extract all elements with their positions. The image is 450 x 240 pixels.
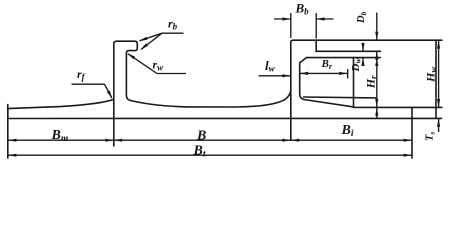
D_b dim lower bbox=[376, 51, 378, 59]
H_r lower extra bbox=[376, 107, 378, 118]
recess right face bbox=[353, 58, 355, 108]
r_b leader 1 bbox=[140, 33, 163, 41]
svg-text:Br: Br bbox=[321, 58, 333, 71]
T_s dim lower bbox=[438, 118, 440, 132]
svg-text:Bi: Bi bbox=[341, 123, 354, 139]
B_r dim line bbox=[300, 72, 348, 74]
svg-text:Ts: Ts bbox=[425, 132, 437, 141]
right end face bbox=[435, 40, 437, 118]
r_f arrow bbox=[107, 91, 112, 99]
right wall right face + fillet + slope B bbox=[300, 63, 354, 107]
recess underside and H_r extension bbox=[307, 57, 381, 59]
trough floor dish bbox=[131, 89, 291, 107]
H_w bottom arrow bbox=[437, 99, 440, 107]
D_w dim upper bbox=[362, 44, 364, 52]
svg-text:Db: Db bbox=[356, 11, 368, 24]
r_b arrow 1 bbox=[139, 37, 148, 41]
svg-text:Bb: Bb bbox=[295, 1, 310, 17]
svg-text:Bm: Bm bbox=[51, 128, 69, 144]
r_b underline bbox=[162, 32, 184, 34]
left edge extension bbox=[7, 105, 9, 159]
B left arrow bbox=[114, 139, 122, 142]
t_w arrow bbox=[282, 74, 290, 77]
T_s bottom arrow bbox=[437, 118, 440, 126]
r_f leader bbox=[105, 84, 112, 98]
B_t left arrow bbox=[8, 154, 16, 157]
left end face of slab bbox=[7, 109, 9, 119]
left wall head bbox=[117, 41, 138, 53]
svg-text:Hr: Hr bbox=[363, 75, 378, 89]
slab top left sloped surface bbox=[8, 99, 114, 108]
walkway block joint bbox=[354, 106, 442, 108]
r_w leader bbox=[128, 54, 157, 74]
r_b arrow 2 bbox=[140, 43, 148, 49]
right wall left face line bbox=[291, 40, 294, 140]
left wall left face line bbox=[114, 41, 117, 146]
B_m left arrow bbox=[8, 139, 16, 142]
kerb joint line bbox=[315, 40, 317, 51]
B_b ext right bbox=[315, 13, 317, 39]
t_w dim line bbox=[259, 75, 291, 77]
D_w dim lower bbox=[362, 58, 364, 65]
B_i left arrow bbox=[291, 139, 299, 142]
svg-text:rw: rw bbox=[153, 58, 165, 73]
B_r ext stub bbox=[347, 69, 349, 79]
B_b ext left bbox=[290, 13, 292, 38]
H_r bottom arrow bbox=[375, 99, 378, 107]
slab bottom bbox=[8, 117, 442, 119]
B_t right arrow bbox=[404, 154, 412, 157]
B_b dim left bbox=[274, 18, 291, 20]
B_r left arrow bbox=[300, 72, 308, 75]
ledge underside line bbox=[316, 50, 380, 52]
B_b dim right bbox=[316, 18, 333, 20]
B right arrow bbox=[282, 139, 290, 142]
H_r top arrow bbox=[375, 58, 378, 66]
recess chamfer bbox=[300, 58, 307, 63]
left wall right face + fillet bbox=[126, 53, 131, 101]
H_w top arrow bbox=[437, 40, 440, 48]
B_b right arrow bbox=[316, 17, 324, 20]
D_b top arrow bbox=[375, 32, 378, 40]
B_b left arrow bbox=[282, 17, 290, 20]
svg-text:Dw: Dw bbox=[350, 58, 363, 73]
r_w underline bbox=[157, 73, 186, 75]
svg-text:rf: rf bbox=[77, 67, 86, 82]
H_r dim line bbox=[376, 58, 378, 108]
row2 dim line bbox=[8, 154, 412, 156]
duct floor line A bbox=[304, 96, 377, 99]
D_b dim upper bbox=[376, 13, 378, 41]
divider extension x412 bbox=[411, 107, 413, 158]
svg-text:rb: rb bbox=[168, 17, 178, 32]
svg-text:lw: lw bbox=[265, 58, 276, 74]
r_b leader 2 bbox=[141, 33, 162, 49]
svg-text:B: B bbox=[196, 129, 206, 144]
H_r extra up arrow bbox=[375, 107, 378, 115]
H_w dim line bbox=[438, 40, 440, 107]
r_w arrow bbox=[127, 53, 135, 59]
D_w bottom arrow bbox=[361, 58, 364, 66]
r_f underline bbox=[72, 83, 105, 85]
B_i right arrow bbox=[404, 139, 412, 142]
svg-text:Bt: Bt bbox=[193, 143, 206, 159]
B_r right arrow bbox=[339, 72, 347, 75]
row1 dim line bbox=[8, 139, 412, 141]
svg-text:Hw: Hw bbox=[423, 66, 438, 83]
D_b bottom arrow bbox=[375, 51, 378, 59]
B_m right arrow bbox=[105, 139, 113, 142]
D_w top arrow bbox=[361, 43, 364, 51]
top surface of wall and ledge bbox=[293, 39, 442, 41]
